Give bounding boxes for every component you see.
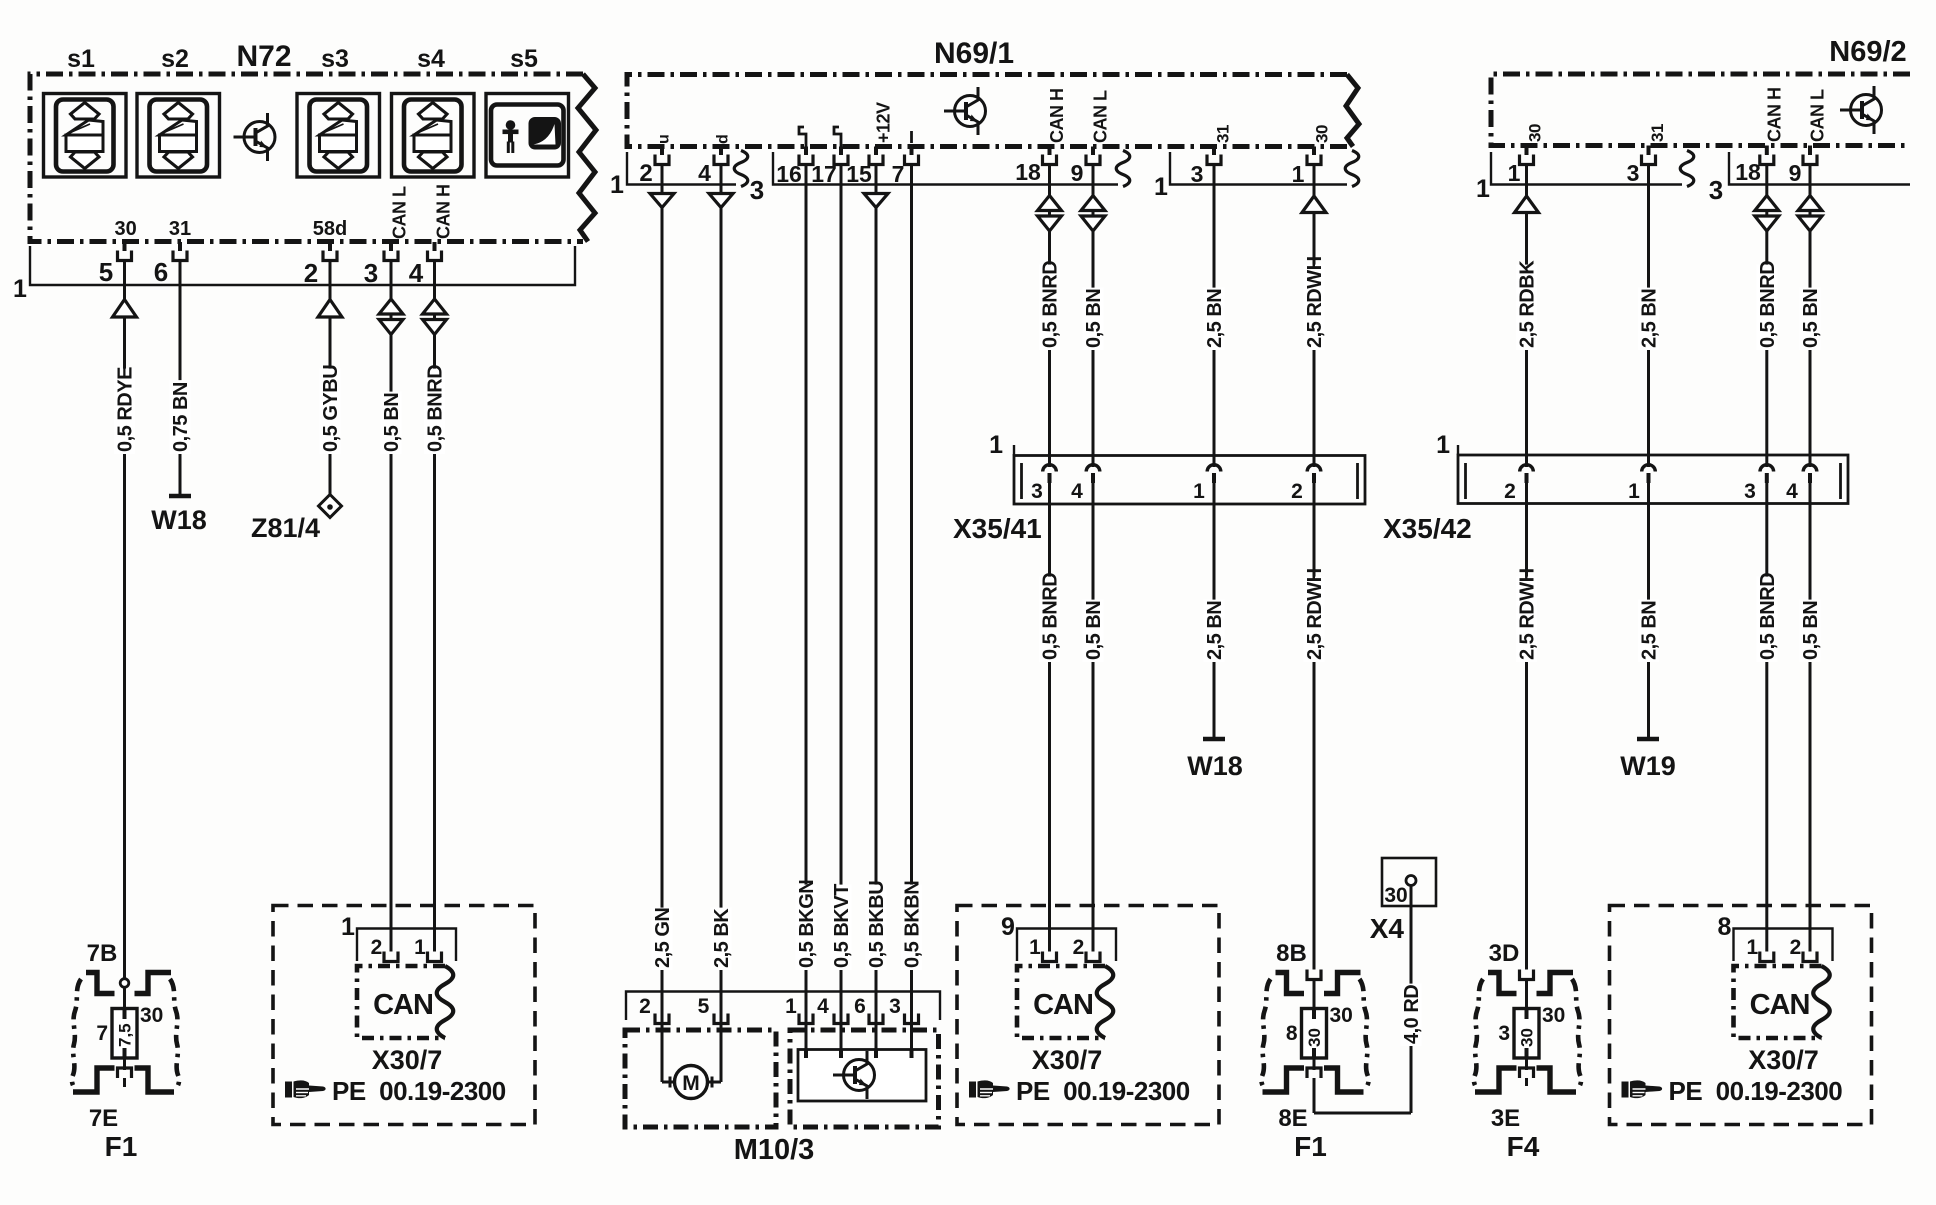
wire label 2,5 RDBK [1516, 260, 1539, 350]
svg-text:1: 1 [989, 431, 1003, 459]
svg-text:0,75 BN: 0,75 BN [170, 382, 192, 452]
svg-text:1: 1 [1193, 480, 1205, 503]
svg-text:1: 1 [1746, 936, 1758, 959]
svg-text:X30/7: X30/7 [372, 1045, 443, 1075]
terminal 30 label (N69/2) [1526, 124, 1545, 142]
X35/42 socket pin 4 [1803, 465, 1817, 472]
svg-text:6: 6 [854, 995, 866, 1018]
svg-text:15: 15 [846, 161, 872, 187]
CAN arrows (N72 CAN H) [423, 299, 447, 314]
svg-text:0,5 BNRD: 0,5 BNRD [1040, 573, 1062, 660]
wire 0,5 BNRD CAN H (N72 pin4 to X30/7) [433, 259, 436, 952]
X35/42 socket pin 2 [1520, 465, 1534, 472]
M10/3 pin 6 terminal [869, 1014, 883, 1024]
terminating resistor squiggle [1813, 966, 1830, 1038]
wire label 4,0 RD [1401, 984, 1424, 1046]
svg-text:F4: F4 [1507, 1131, 1540, 1162]
N72 pin 4 stub [433, 242, 437, 251]
N69/1 pin 17 terminal [834, 155, 848, 165]
switch s2 (window lifter) [137, 94, 220, 178]
CAN arrows (N69/1 CAN H) [1038, 196, 1062, 211]
wire 0,5 RDYE (N72 pin5 to F1) [123, 259, 126, 979]
CAN L label (N72) [390, 186, 410, 239]
svg-text:30: 30 [1518, 1028, 1537, 1047]
N69/1 pin 18 stub [1048, 147, 1052, 156]
control unit N69/2 box [1491, 74, 1910, 146]
switch s3 (window lifter) [297, 94, 380, 178]
wire 2,5 BK (N69/1 pin4 to M10/3) [720, 163, 723, 1082]
svg-text:8E: 8E [1278, 1105, 1307, 1132]
direction arrow (RDYE) [113, 300, 137, 318]
terminal 3D [1520, 970, 1534, 980]
N72 pin 3 terminal [384, 251, 398, 261]
switch s4 (window lifter) [392, 94, 475, 178]
fuse value [1305, 1028, 1324, 1047]
terminating resistor squiggle [437, 966, 454, 1038]
svg-text:6: 6 [154, 257, 168, 287]
svg-text:2: 2 [639, 160, 652, 187]
svg-text:2,5 BK: 2,5 BK [711, 908, 733, 968]
svg-text:0,5 BN: 0,5 BN [1800, 601, 1822, 660]
wire 0,75 BN (N72 pin6 to W18) [179, 259, 182, 496]
svg-text:1: 1 [341, 913, 355, 941]
wire label 2,5 BN [1638, 600, 1661, 662]
svg-text:30: 30 [1526, 124, 1545, 142]
transistor symbol in N72 [234, 113, 276, 161]
svg-text:1: 1 [610, 171, 624, 199]
svg-text:2: 2 [1504, 480, 1516, 503]
svg-text:X35/42: X35/42 [1383, 513, 1472, 544]
CAN arrows (N69/2 CAN L) [1798, 196, 1822, 211]
wire label 0,5 BKVT [831, 884, 854, 970]
wire label 2,5 RDWH [1304, 256, 1327, 350]
wire label 0,5 BKBU [866, 881, 889, 970]
N69/2 pin 9 terminal [1803, 155, 1817, 165]
svg-text:1: 1 [1508, 160, 1521, 186]
wire 0,5 GYBU (N72 pin2 to Z81/4) [329, 259, 332, 496]
svg-text:7,5: 7,5 [116, 1023, 135, 1047]
svg-text:3: 3 [1744, 480, 1756, 503]
wire label 2,5 RDWH [1516, 568, 1539, 662]
svg-text:0,5 BN: 0,5 BN [1083, 289, 1105, 348]
M10/3 pin 3 terminal [905, 1014, 919, 1024]
s5 person glyph [503, 120, 519, 153]
svg-text:d: d [715, 134, 732, 144]
X35/42 socket pin 1 [1642, 465, 1656, 472]
svg-text:2: 2 [1790, 936, 1802, 959]
N69/2 pin 18 stub [1765, 146, 1769, 156]
CAN H label (N69/2) [1765, 88, 1785, 143]
N69/1 pin 3 stub [1212, 147, 1216, 156]
terminal pin 1 [1043, 952, 1057, 962]
svg-text:W18: W18 [1187, 751, 1243, 781]
svg-text:1: 1 [1292, 161, 1305, 187]
direction arrow (N69/1 30) [1302, 196, 1326, 213]
connector X30/7 (right) [1610, 906, 1872, 1125]
terminating resistor squiggle [1097, 966, 1114, 1038]
svg-text:1: 1 [1628, 480, 1640, 503]
svg-text:CAN H: CAN H [1765, 88, 1785, 143]
electronics entry tick [910, 1050, 914, 1059]
bracket 1 end squiggle [734, 151, 748, 187]
direction arrow (pin2) [650, 194, 674, 208]
N69/2 pin 3 stub [1647, 146, 1651, 156]
N69/1 pin 2 stub [660, 147, 664, 156]
N69/1 pin 18 terminal [1043, 155, 1057, 165]
svg-text:PE 00.19-2300: PE 00.19-2300 [1669, 1076, 1843, 1106]
N72 pin 6 stub [178, 242, 182, 251]
transistor symbol in N69/2 [1840, 86, 1882, 134]
N69/2 pin 18 terminal [1760, 155, 1774, 165]
svg-text:0,5 GYBU: 0,5 GYBU [320, 365, 342, 452]
CAN arrows (N72 CAN L) [379, 299, 403, 314]
svg-text:3: 3 [750, 175, 764, 205]
svg-text:PE 00.19-2300: PE 00.19-2300 [332, 1076, 506, 1106]
pointing hand icon [1622, 1080, 1663, 1098]
switch s5 (child lock / sunroof) [486, 94, 569, 178]
svg-text:4: 4 [698, 160, 711, 186]
svg-text:9: 9 [1071, 160, 1084, 186]
M10/3 left dash-dot box (motor) [625, 1030, 776, 1127]
switch contact symbol above pin 16 [799, 127, 806, 147]
svg-text:W18: W18 [151, 505, 207, 535]
svg-text:2,5 RDWH: 2,5 RDWH [1304, 256, 1326, 348]
wire label 0,5 BNRD [424, 365, 447, 454]
svg-text:30: 30 [1313, 125, 1332, 143]
svg-text:17: 17 [811, 161, 837, 187]
N72 box right jagged edge [578, 74, 596, 242]
fuse F4 (fuse F4) [1474, 973, 1581, 1093]
N69/2 connector bracket 1 [1491, 152, 1682, 185]
terminal 30 label (N69/1) [1313, 125, 1332, 143]
svg-text:1: 1 [1029, 936, 1041, 959]
svg-text:X30/7: X30/7 [1748, 1045, 1819, 1075]
N69/2 connector bracket 3 [1729, 152, 1910, 185]
wire label 2,5 BN [1204, 600, 1227, 662]
svg-text:1: 1 [1476, 175, 1490, 203]
wire 0,5 BN CAN L (N69/2 pin9 to X35/42 to X30/7) [1809, 163, 1812, 467]
svg-text:CAN: CAN [1033, 989, 1093, 1021]
+12V label above pin 15 [874, 102, 894, 143]
svg-text:30: 30 [140, 1004, 163, 1027]
svg-text:CAN: CAN [373, 989, 433, 1021]
M10/3 right dash-dot box (electronics) [790, 1030, 939, 1127]
svg-text:1: 1 [13, 275, 27, 303]
svg-text:5: 5 [99, 257, 113, 287]
svg-text:X30/7: X30/7 [1032, 1045, 1103, 1075]
N69/1 pin 2 terminal [655, 155, 669, 165]
svg-text:18: 18 [1735, 159, 1761, 185]
svg-text:2,5 BN: 2,5 BN [1204, 601, 1226, 660]
wire 8E junction [1314, 1112, 1411, 1115]
svg-text:31: 31 [1648, 124, 1667, 142]
N69/1 pin 15 terminal [869, 155, 883, 165]
svg-text:1: 1 [785, 995, 797, 1018]
svg-text:0,5 BN: 0,5 BN [381, 393, 403, 452]
svg-text:s1: s1 [67, 45, 95, 73]
svg-text:7: 7 [96, 1022, 108, 1045]
N69/1 pin 9 terminal [1086, 155, 1100, 165]
ground W18 (left) [169, 494, 191, 499]
svg-text:0,5 BN: 0,5 BN [1083, 601, 1105, 660]
svg-text:s2: s2 [161, 45, 189, 73]
N69/1 connector bracket 3 (pins 16-9) [773, 152, 1118, 185]
N72 pin 3 stub [389, 242, 393, 251]
pin bracket [1017, 929, 1116, 962]
N69/2 pin 3 terminal [1642, 155, 1656, 165]
svg-text:CAN L: CAN L [390, 186, 410, 239]
pointing hand icon [969, 1080, 1010, 1098]
svg-text:s4: s4 [417, 45, 445, 73]
control unit N72 (door control console) box [30, 74, 583, 242]
N69/1 pin 7 terminal [905, 155, 919, 165]
wire label 0,75 BN [170, 380, 193, 454]
symbol u above pin 2 [656, 134, 673, 144]
terminal 8B [1307, 970, 1321, 980]
fuse F1 (left fuse F1) [72, 973, 179, 1093]
svg-text:0,5 RDYE: 0,5 RDYE [115, 367, 137, 452]
svg-text:8B: 8B [1276, 940, 1307, 967]
N69/1 pin 17 stub [839, 147, 843, 156]
wire label 0,5 BN [381, 392, 404, 454]
svg-text:2: 2 [1291, 480, 1303, 503]
stub above pin 7 [910, 131, 913, 143]
wire 0,5 BKBU (N69/1 pin15 to M10/3) [875, 163, 878, 1050]
svg-text:0,5 BKVT: 0,5 BKVT [831, 884, 853, 968]
N72 pin 5 stub [123, 242, 127, 251]
svg-text:0,5 BNRD: 0,5 BNRD [425, 365, 447, 452]
N69/1 pin 1 stub [1312, 147, 1316, 156]
bracket end squiggle [1680, 151, 1694, 187]
N69/1 pin 4 terminal [714, 155, 728, 165]
svg-text:0,5 BNRD: 0,5 BNRD [1757, 573, 1779, 660]
ground W19 [1637, 737, 1659, 742]
terminal pin 1 [428, 952, 442, 962]
CAN module box [357, 966, 445, 1038]
terminal pin 2 [1803, 952, 1817, 962]
M10/3 pin 5 terminal [714, 1014, 728, 1024]
svg-text:7: 7 [892, 161, 905, 187]
svg-text:31: 31 [1214, 125, 1233, 143]
svg-text:N69/1: N69/1 [934, 37, 1014, 70]
svg-text:4: 4 [817, 995, 829, 1018]
switch s1 (window lifter) [44, 94, 127, 178]
ground W18 (center) [1203, 737, 1225, 742]
bracket 3 end squiggle [1116, 151, 1130, 187]
terminal circle 7B [120, 979, 129, 988]
symbol d above pin 4 [715, 134, 732, 144]
motor unit M10/3 pin bracket [626, 992, 940, 1021]
terminal 3E [1520, 1068, 1534, 1078]
svg-text:X35/41: X35/41 [953, 513, 1042, 544]
X35/41 socket pin 2 [1307, 465, 1321, 472]
svg-text:2,5 BN: 2,5 BN [1639, 601, 1661, 660]
svg-text:3: 3 [1191, 161, 1204, 187]
X35/41 socket pin 4 [1086, 465, 1100, 472]
transistor symbol in M10/3 [833, 1051, 875, 1099]
N69/2 pin 9 stub [1808, 146, 1812, 156]
motor leads [662, 1081, 675, 1084]
svg-text:X4: X4 [1370, 913, 1405, 944]
direction arrow (pin15) [864, 194, 888, 208]
direction arrow (pin4) [709, 194, 733, 208]
pin bracket [357, 929, 456, 962]
svg-text:s5: s5 [510, 45, 538, 73]
N69/1 pin 9 stub [1091, 147, 1095, 156]
N69/1 pin 15 stub [874, 147, 878, 156]
fuse value [116, 1023, 135, 1047]
wire label 2,5 BK [711, 908, 734, 970]
N69/1 pin 3 terminal [1207, 155, 1221, 165]
svg-text:30: 30 [1305, 1028, 1324, 1047]
svg-text:1: 1 [1436, 431, 1450, 459]
svg-text:W19: W19 [1620, 751, 1676, 781]
N72 pin 5 terminal [118, 251, 132, 261]
N69/1 pin 16 terminal [799, 155, 813, 165]
wire 0,5 BN CAN L (N72 pin3 to X30/7) [390, 259, 393, 952]
wire label 2,5 GN [652, 908, 675, 970]
wire label 0,5 BNRD [1756, 573, 1779, 662]
wire 0,5 BKGN (N69/1 pin16 to M10/3) [805, 163, 808, 1050]
svg-text:PE 00.19-2300: PE 00.19-2300 [1016, 1076, 1190, 1106]
CAN L label (N69/1 pin 9) [1091, 90, 1111, 143]
M10/3 electronics block [798, 1050, 926, 1102]
svg-text:CAN H: CAN H [434, 185, 454, 240]
svg-text:CAN H: CAN H [1047, 89, 1067, 144]
N69/1 connector bracket 1b (pins 3,1) [1170, 152, 1347, 185]
wire label 0,5 RDYE [114, 367, 137, 454]
svg-text:30: 30 [1330, 1004, 1353, 1027]
wire label 0,5 BN [1800, 600, 1823, 662]
svg-text:1: 1 [414, 936, 426, 959]
N69/1 pin 7 stub [910, 147, 914, 156]
svg-text:1: 1 [1154, 173, 1168, 201]
N72 pin 2 stub [328, 242, 332, 251]
connector sleeve Z81/4 [319, 495, 342, 518]
svg-text:4: 4 [1071, 480, 1083, 503]
wire label 0,5 BNRD [1039, 573, 1062, 662]
N69/1 pin 16 stub [804, 147, 808, 156]
svg-text:2: 2 [304, 258, 318, 288]
terminal pin 2 [1086, 952, 1100, 962]
wire 2,5 RDWH (N69/1 pin1 to X35/41 to F1) [1313, 163, 1316, 467]
wire label 2,5 RDWH [1304, 568, 1327, 662]
M10/3 pin 1 terminal [799, 1014, 813, 1024]
wire 2,5 BN (N69/1 pin3 to X35/41 to W18) [1213, 163, 1216, 467]
wire label 2,5 BN [1638, 288, 1661, 350]
N69/2 pin 1 terminal [1520, 155, 1534, 165]
pin bracket [1734, 929, 1833, 962]
coupler X35/42 [1458, 455, 1848, 504]
svg-text:2,5 RDWH: 2,5 RDWH [1517, 568, 1539, 660]
CAN module box [1734, 966, 1822, 1038]
wire 2,5 BN (N69/2 pin3 to X35/42 to W19) [1647, 163, 1650, 467]
svg-text:3: 3 [889, 995, 901, 1018]
svg-text:4: 4 [1786, 480, 1798, 503]
electronics entry tick [804, 1050, 808, 1059]
svg-text:30: 30 [1384, 884, 1407, 907]
wire label 0,5 BN [1800, 288, 1823, 350]
terminal 31 label (N69/1) [1214, 125, 1233, 143]
svg-text:3E: 3E [1491, 1105, 1520, 1132]
wire 2,5 GN (N69/1 pin2 to M10/3) [661, 163, 664, 1082]
N69/1 pin 1 terminal [1307, 155, 1321, 165]
CAN arrows (N69/2 CAN H) [1755, 196, 1779, 211]
wire 0,5 BKVT (N69/1 pin17 to M10/3) [840, 163, 843, 1050]
svg-text:+12V: +12V [874, 102, 894, 143]
N69/1 right jagged edge [1346, 75, 1359, 147]
connector X30/7 (center) [957, 906, 1219, 1125]
N72 connector bracket 1 [30, 246, 575, 285]
svg-text:Z81/4: Z81/4 [251, 513, 320, 543]
s5 sunroof glyph [530, 119, 560, 149]
electronics entry tick [839, 1050, 843, 1059]
wire label 0,5 GYBU [320, 365, 343, 454]
svg-text:N72: N72 [236, 40, 291, 73]
direction arrow (GYBU) [318, 300, 342, 318]
svg-text:u: u [656, 134, 673, 144]
M10/3 pin 4 terminal [834, 1014, 848, 1024]
svg-text:8: 8 [1286, 1022, 1298, 1045]
M10/3 pin 2 terminal [655, 1014, 669, 1024]
svg-text:5: 5 [698, 995, 710, 1018]
N72 pin 6 terminal [173, 251, 187, 261]
CAN H label (N72) [434, 185, 454, 240]
coupler X35/41 [1014, 456, 1365, 505]
transistor symbol in N69/1 [944, 87, 986, 135]
svg-text:0,5 BKGN: 0,5 BKGN [796, 880, 818, 968]
svg-text:2,5 BN: 2,5 BN [1204, 289, 1226, 348]
N69/2 pin 1 stub [1525, 146, 1529, 156]
wire 0,5 BKBN (N69/1 pin7 to M10/3) [910, 163, 913, 1050]
switch contact symbol above pin 17 [834, 127, 841, 147]
svg-text:2: 2 [371, 936, 383, 959]
svg-text:2,5 GN: 2,5 GN [652, 908, 674, 968]
svg-text:0,5 BNRD: 0,5 BNRD [1757, 261, 1779, 348]
wire 0,5 BNRD CAN H (N69/1 pin18 to X35/41 to X30/7) [1048, 163, 1051, 467]
X35/41 socket pin 1 [1207, 465, 1221, 472]
wire label 0,5 BNRD [1756, 261, 1779, 350]
wire 2,5 RDBK / RDWH (N69/2 pin1 to X35/42 to F4) [1525, 163, 1528, 467]
X35/42 socket pin 3 [1760, 465, 1774, 472]
wire 4,0 RD (X4 to F1 8E) [1410, 886, 1413, 1114]
terminal 31 label (N69/2) [1648, 124, 1667, 142]
svg-text:2,5 RDWH: 2,5 RDWH [1304, 568, 1326, 660]
svg-text:9: 9 [1789, 160, 1802, 186]
fuse F1 (fuse F1 right) [1261, 973, 1368, 1093]
N69/1 connector bracket 1 [627, 152, 736, 185]
wire label 0,5 BN [1083, 288, 1106, 350]
wire label 0,5 BKGN [796, 880, 819, 970]
svg-text:31: 31 [169, 218, 191, 240]
svg-text:M10/3: M10/3 [734, 1134, 815, 1166]
CAN arrows (N69/1 CAN L) [1081, 196, 1105, 211]
terminal pin 1 [1760, 952, 1774, 962]
control unit N69/1 box [627, 75, 1347, 147]
svg-text:0,5 BKBN: 0,5 BKBN [902, 881, 924, 968]
CAN L label (N69/2) [1808, 89, 1828, 142]
fuse value [1518, 1028, 1537, 1047]
svg-text:30: 30 [114, 218, 136, 240]
svg-text:7E: 7E [89, 1105, 118, 1132]
svg-text:7B: 7B [87, 940, 118, 967]
N69/1 pin 4 stub [719, 147, 723, 156]
svg-text:3: 3 [1627, 160, 1640, 186]
svg-text:CAN: CAN [1750, 989, 1810, 1021]
svg-text:0,5 BNRD: 0,5 BNRD [1040, 261, 1062, 348]
svg-text:18: 18 [1015, 159, 1041, 185]
svg-text:M: M [682, 1072, 700, 1095]
